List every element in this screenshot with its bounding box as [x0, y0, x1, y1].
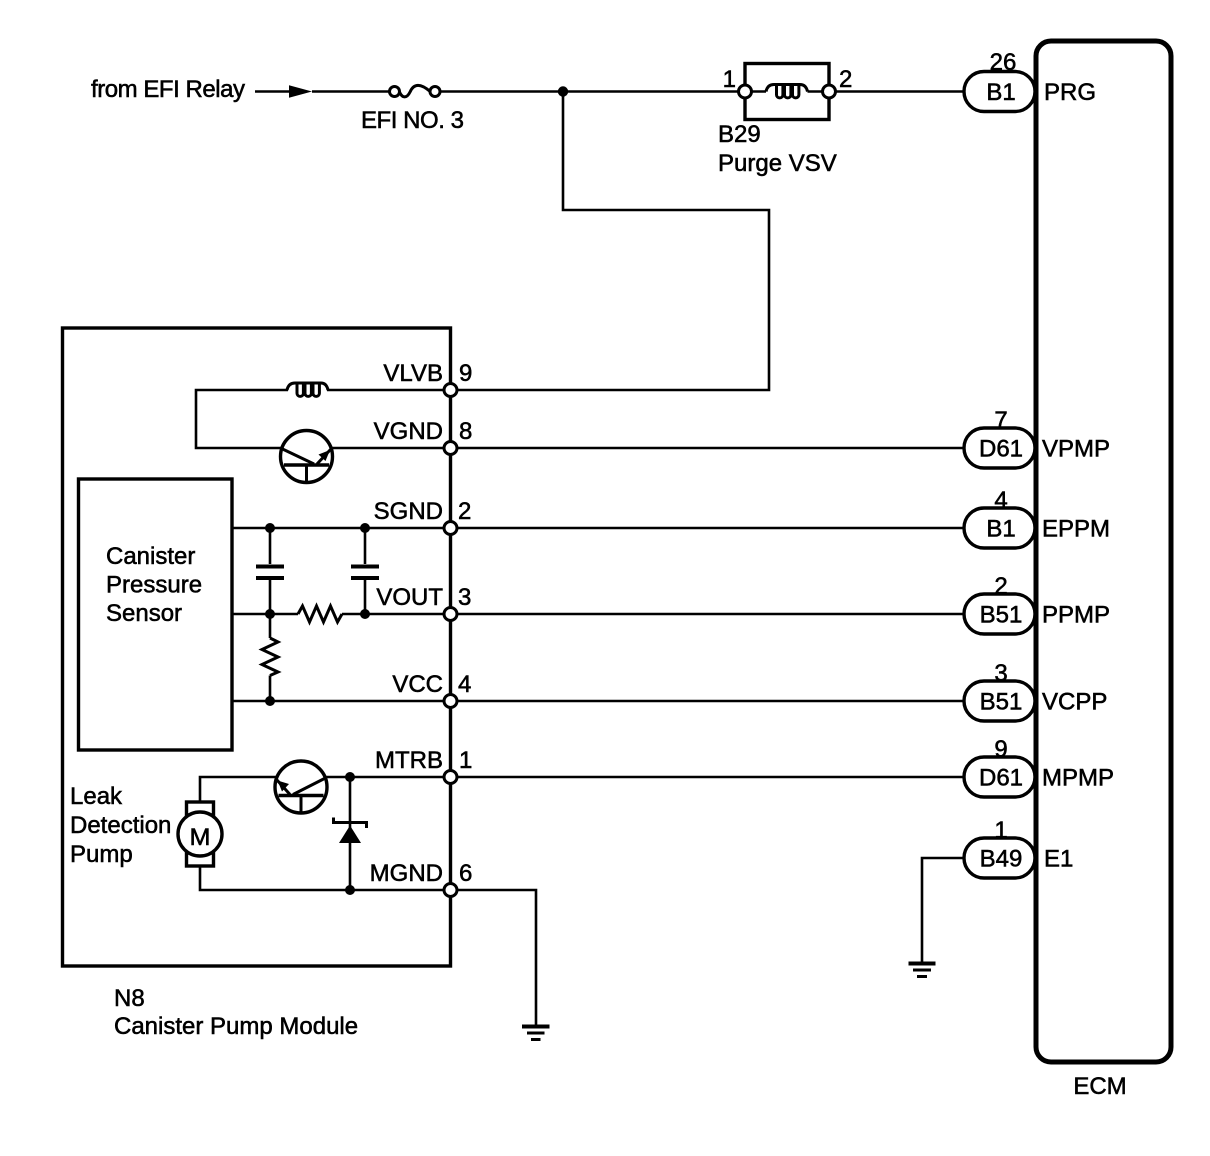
diode D1 cathode bar (zener)	[334, 818, 367, 829]
wire coil L1 to left corner and down to VGND row	[196, 390, 288, 448]
wire motor bottom to MGND row	[200, 866, 444, 890]
transistor Q2 emitter arrow	[278, 781, 290, 792]
junction dot node at x563 on B+ wire	[558, 86, 568, 96]
ECM connector oval B51 pin 3 VCPP	[964, 681, 1035, 721]
transistor Q1 base lead	[305, 465, 308, 482]
ECM connector oval B1 pin 26 PRG	[964, 72, 1035, 112]
fuse EFI NO. 3 wave element	[399, 85, 430, 97]
motor M top brush	[187, 802, 214, 815]
transistor Q2 circle	[275, 761, 327, 813]
svg-text:Detection: Detection	[70, 812, 171, 839]
wire sensor to VOUT pin 3	[232, 613, 444, 616]
resistor R1 horizontal on VOUT	[298, 606, 342, 622]
module pin 1 MTRB terminal	[444, 771, 457, 784]
svg-text:1: 1	[994, 817, 1007, 844]
junction dot VOUT at x365	[360, 609, 370, 619]
junction dot SGND at x365	[360, 523, 370, 533]
svg-text:B51: B51	[980, 602, 1023, 629]
module pin 9 VLVB terminal	[444, 384, 457, 397]
transistor Q1 circle	[281, 431, 333, 483]
transistor Q2 emitter diagonal	[277, 780, 291, 795]
ground G2 symbol (E1)	[909, 962, 936, 966]
transistor Q1 collector diagonal	[283, 449, 315, 464]
ECM connector oval D61 pin 7 VPMP	[964, 428, 1035, 468]
ECM connector oval D61 pin 9 MPMP	[964, 757, 1035, 797]
transistor Q2 base lead	[300, 796, 303, 813]
svg-text:SGND: SGND	[374, 498, 443, 525]
coil of Purge VSV B29	[766, 85, 808, 98]
fuse EFI NO. 3 left terminal	[390, 87, 400, 97]
wire Q2 left to motor top	[200, 777, 277, 802]
module pin 3 VOUT terminal	[444, 608, 457, 621]
junction dot VOUT at x270	[265, 609, 275, 619]
wire VOUT pin 3 to ECM B51 PPMP	[457, 613, 964, 616]
capacitor C2 plates	[351, 567, 379, 579]
wire from EFI Relay to fuse	[255, 90, 390, 93]
svg-text:2: 2	[839, 66, 852, 93]
ECM box	[1036, 41, 1171, 1062]
fuse EFI NO. 3 right terminal	[430, 87, 440, 97]
wire MTRB pin 1 to ECM D61 MPMP	[457, 776, 964, 779]
motor M bottom brush	[187, 853, 214, 866]
svg-text:9: 9	[459, 360, 472, 387]
svg-text:VLVB: VLVB	[383, 360, 443, 387]
wire VLVB pin 9 to coil L1	[327, 389, 444, 392]
svg-text:Sensor: Sensor	[106, 600, 182, 627]
ground G1 symbol (MGND)	[522, 1025, 550, 1029]
svg-text:Pump: Pump	[70, 841, 133, 868]
junction dot SGND at x270	[265, 523, 275, 533]
svg-text:6: 6	[459, 860, 472, 887]
svg-text:3: 3	[994, 660, 1007, 687]
resistor R2 vertical leads	[269, 614, 272, 701]
transistor Q2 base bar	[279, 794, 324, 798]
svg-text:EPPM: EPPM	[1042, 516, 1110, 543]
wire jog from junction down to VLVB pin 9	[458, 92, 770, 391]
transistor Q1 emitter diagonal	[317, 450, 331, 465]
svg-text:E1: E1	[1044, 846, 1073, 873]
resistor R2 zigzag	[262, 638, 278, 676]
svg-text:EFI NO. 3: EFI NO. 3	[361, 107, 464, 134]
arrowhead on EFI relay feed wire	[289, 85, 312, 98]
motor M body circle	[178, 812, 222, 856]
N8 Canister Pump Module box	[63, 328, 451, 966]
svg-text:D61: D61	[979, 436, 1023, 463]
svg-text:ECM: ECM	[1073, 1073, 1126, 1100]
svg-text:B51: B51	[980, 689, 1023, 716]
svg-text:VPMP: VPMP	[1042, 436, 1110, 463]
wire stubs inside Purge VSV to coil	[751, 90, 823, 93]
coil L1 on VLVB line	[287, 383, 328, 396]
wire MGND pin 6 to ground G1	[457, 890, 536, 1025]
svg-text:1: 1	[723, 66, 736, 93]
svg-text:2: 2	[994, 573, 1007, 600]
svg-text:Pressure: Pressure	[106, 572, 202, 599]
module pin 2 SGND terminal	[444, 522, 457, 535]
svg-text:VCPP: VCPP	[1042, 689, 1107, 716]
svg-text:N8: N8	[114, 985, 145, 1012]
svg-text:9: 9	[994, 736, 1007, 763]
svg-text:MGND: MGND	[370, 860, 443, 887]
svg-text:Purge VSV: Purge VSV	[718, 150, 837, 177]
wire Purge VSV pin 2 to ECM PRG oval	[835, 90, 964, 93]
wire SGND pin 2 to ECM B1 EPPM	[457, 527, 964, 530]
module pin 4 VCC terminal	[444, 695, 457, 708]
svg-text:M: M	[190, 824, 211, 851]
svg-text:4: 4	[458, 671, 471, 698]
wire sensor to SGND pin 2	[232, 527, 444, 530]
wire diode D1 vertical net	[349, 777, 352, 890]
svg-text:MPMP: MPMP	[1042, 765, 1114, 792]
svg-text:2: 2	[458, 498, 471, 525]
wire VGND pin 8 to ECM D61 VPMP	[457, 447, 964, 450]
svg-text:PRG: PRG	[1044, 79, 1096, 106]
module pin 8 VGND terminal	[444, 442, 457, 455]
transistor Q1 emitter arrow	[319, 450, 331, 461]
wire sensor to VCC pin 4	[232, 700, 444, 703]
ECM connector oval B1 pin 4 EPPM	[964, 508, 1035, 548]
capacitor C1 top lead	[269, 528, 272, 564]
wire VCC pin 4 to ECM B51 VCPP	[457, 700, 964, 703]
module pin 6 MGND terminal	[444, 884, 457, 897]
svg-text:B1: B1	[986, 516, 1015, 543]
wire fuse to Purge VSV pin 1	[440, 90, 739, 93]
svg-text:from EFI Relay: from EFI Relay	[91, 76, 245, 103]
wire E1 oval to ground G2	[922, 858, 964, 962]
svg-text:Canister Pump Module: Canister Pump Module	[114, 1013, 358, 1040]
wire transistor Q2 to MTRB pin 1	[325, 776, 444, 779]
svg-text:B29: B29	[718, 121, 761, 148]
transistor Q1 base bar	[284, 463, 329, 467]
svg-text:Canister: Canister	[106, 543, 195, 570]
svg-text:MTRB: MTRB	[375, 747, 443, 774]
svg-text:4: 4	[994, 487, 1007, 514]
ECM connector oval B49 pin 1 E1	[964, 838, 1035, 878]
capacitor C1 plates	[256, 567, 284, 579]
svg-text:Leak: Leak	[70, 783, 123, 810]
svg-text:3: 3	[458, 584, 471, 611]
Purge VSV B29 box	[745, 64, 829, 120]
ECM connector oval B51 pin 2 PPMP	[964, 594, 1035, 634]
svg-text:PPMP: PPMP	[1042, 602, 1110, 629]
Canister Pressure Sensor box	[79, 479, 233, 750]
Purge VSV pin 2 terminal circle	[823, 85, 836, 98]
transistor Q2 collector diagonal	[293, 779, 325, 795]
junction dot MTRB at x350	[345, 772, 355, 782]
svg-text:VCC: VCC	[392, 671, 443, 698]
junction dot MGND at x350	[345, 885, 355, 895]
svg-text:26: 26	[990, 49, 1017, 76]
wire transistor Q1 to VGND pin 8	[331, 447, 444, 450]
capacitor C1 bottom lead	[269, 580, 272, 614]
capacitor C2 bottom lead	[364, 580, 367, 614]
svg-text:D61: D61	[979, 765, 1023, 792]
Purge VSV pin 1 terminal circle	[739, 85, 752, 98]
junction dot VCC at x270	[265, 696, 275, 706]
svg-text:1: 1	[459, 747, 472, 774]
capacitor C2 top lead	[364, 528, 367, 564]
svg-text:8: 8	[459, 418, 472, 445]
svg-text:VOUT: VOUT	[376, 584, 443, 611]
svg-text:B49: B49	[980, 846, 1023, 873]
svg-text:VGND: VGND	[374, 418, 443, 445]
svg-text:B1: B1	[986, 79, 1015, 106]
diode D1 anode triangle	[339, 826, 361, 844]
svg-text:7: 7	[994, 407, 1007, 434]
